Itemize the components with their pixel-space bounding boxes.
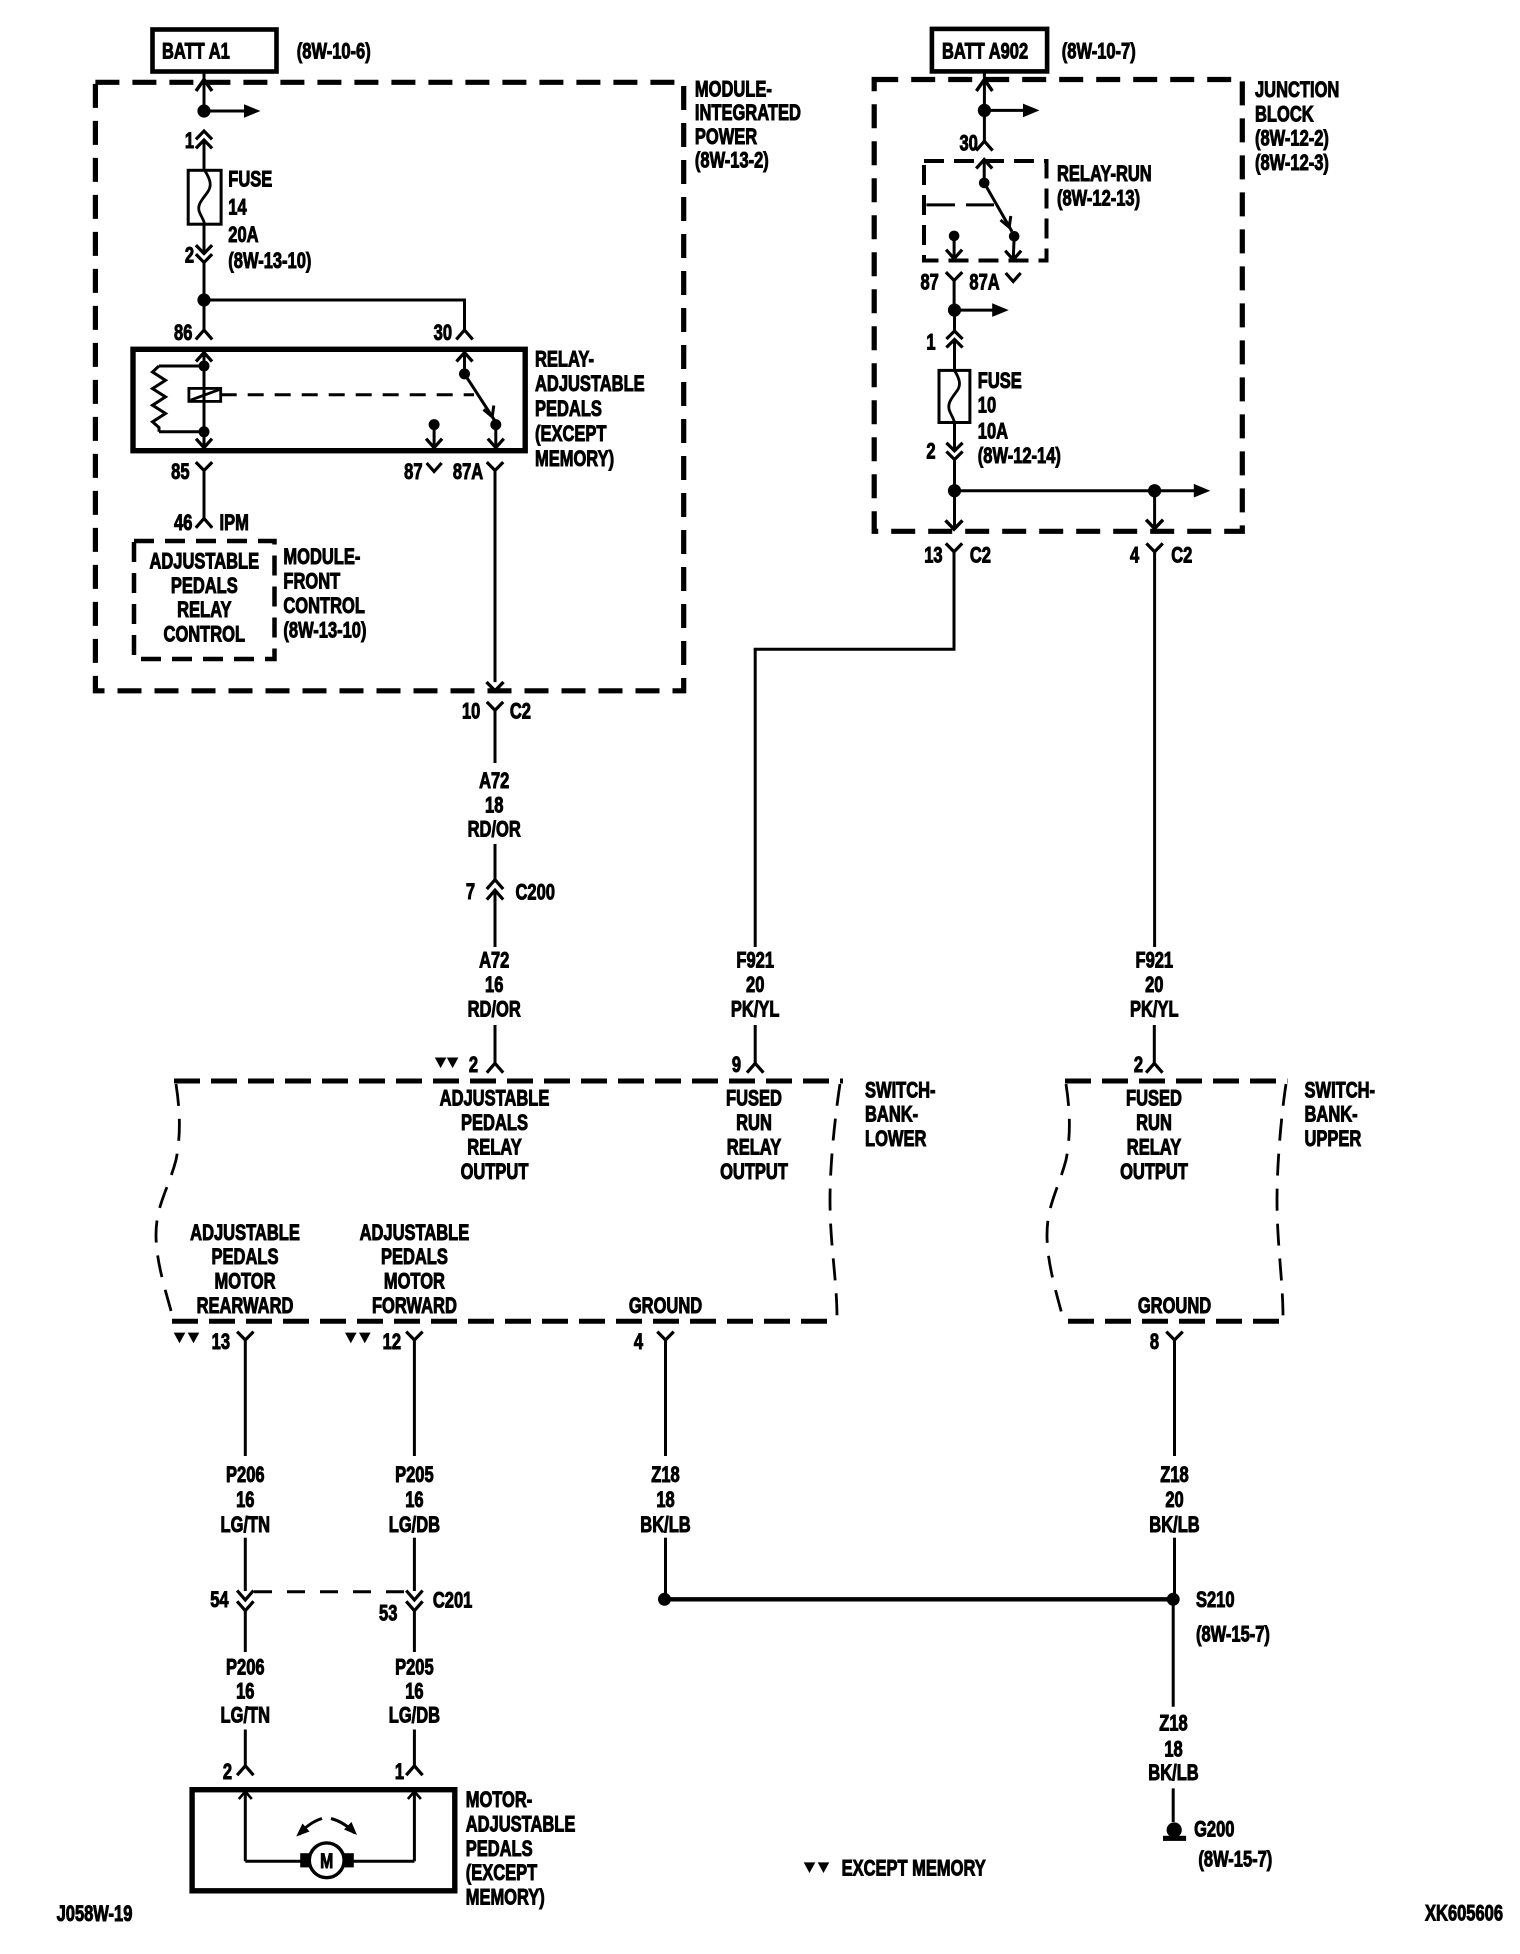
node branch to 4 C2 [1148, 484, 1161, 497]
pin 1 of motor [395, 1760, 423, 1785]
svg-text:30: 30 [959, 131, 978, 156]
svg-text:PEDALS: PEDALS [212, 1245, 279, 1270]
svg-text:C2: C2 [510, 699, 531, 724]
arrow feed right [984, 104, 1039, 118]
svg-text:(8W-12-13): (8W-12-13) [1057, 186, 1140, 211]
svg-text:GROUND: GROUND [1138, 1294, 1211, 1319]
svg-text:FUSE: FUSE [228, 167, 272, 192]
relay-run switch input arrow [976, 160, 992, 183]
wire A72 to switch bank pin 2 [494, 1025, 497, 1063]
svg-text:RELAY: RELAY [467, 1135, 521, 1160]
svg-text:2: 2 [469, 1053, 478, 1078]
label ADJUSTABLE PEDALS RELAY CONTROL [149, 549, 259, 647]
relay coil symbol box [189, 388, 221, 401]
svg-text:ADJUSTABLE: ADJUSTABLE [466, 1812, 576, 1837]
svg-text:MOTOR: MOTOR [384, 1269, 445, 1294]
svg-text:P206: P206 [226, 1463, 265, 1488]
svg-text:F921: F921 [1135, 948, 1173, 973]
svg-text:IPM: IPM [220, 511, 249, 536]
node ground junction left [658, 1593, 671, 1606]
svg-text:BATT A902: BATT A902 [942, 39, 1028, 64]
svg-text:87A: 87A [969, 270, 999, 295]
node feed to fuse 10 [948, 304, 961, 317]
module-integrated power dashed box [95, 82, 683, 691]
pin 86 of relay [174, 321, 212, 346]
wire Z18 to ground G200 [1172, 1788, 1175, 1822]
wire C2 to label A72 [494, 710, 497, 763]
pin 13 switch bank lower [212, 1330, 254, 1355]
svg-text:P206: P206 [226, 1655, 265, 1680]
svg-text:1: 1 [926, 330, 935, 355]
net ADJUSTABLE PEDALS MOTOR REARWARD [190, 1221, 300, 1319]
pin 2 of motor [223, 1760, 254, 1785]
svg-text:FORWARD: FORWARD [372, 1294, 457, 1319]
node split to relay pins 86 and 30 [197, 293, 210, 306]
svg-text:9: 9 [732, 1053, 741, 1078]
svg-text:16: 16 [485, 973, 504, 998]
svg-text:RD/OR: RD/OR [468, 817, 521, 842]
svg-text:(8W-10-6): (8W-10-6) [297, 39, 371, 64]
wire label F921 20 PK/YL upper [1130, 948, 1179, 1022]
value label FUSE 14 20A (8W-13-10) [228, 167, 311, 273]
svg-text:MOTOR-: MOTOR- [466, 1788, 533, 1813]
svg-text:ADJUSTABLE: ADJUSTABLE [360, 1221, 470, 1246]
svg-text:REARWARD: REARWARD [197, 1294, 294, 1319]
motor pin 2 entry arrow [239, 1792, 252, 1862]
svg-text:A72: A72 [479, 948, 509, 973]
wire P206 to motor pin 2 [244, 1730, 247, 1766]
svg-text:16: 16 [405, 1488, 424, 1513]
net FUSED RUN RELAY OUTPUT lower [720, 1086, 788, 1185]
svg-text:EXCEPT MEMORY: EXCEPT MEMORY [842, 1856, 986, 1881]
wire pin 8 down [1173, 1340, 1176, 1456]
junction block dashed box [874, 80, 1242, 532]
label SWITCH-BANK-LOWER [865, 1078, 936, 1152]
svg-text:OUTPUT: OUTPUT [461, 1160, 529, 1185]
wire to motor right brush [353, 1860, 414, 1863]
net GROUND upper [1138, 1294, 1211, 1319]
pin 30 of relay-run [959, 131, 992, 156]
label RELAY-RUN (8W-12-13) [1057, 162, 1152, 211]
wire pin 12 down [413, 1340, 416, 1456]
svg-text:FUSED: FUSED [1126, 1086, 1182, 1111]
wire P205 to connector 53 [413, 1538, 416, 1591]
wire fuse to pin 2 [203, 224, 206, 253]
relay contact 87A node [490, 419, 501, 430]
svg-text:ADJUSTABLE: ADJUSTABLE [440, 1086, 550, 1111]
wire node to exit 4 C2 [1146, 491, 1163, 529]
arrow fused run feed right [955, 484, 1211, 498]
svg-text:PK/YL: PK/YL [1130, 997, 1179, 1022]
adjustable pedals relay control dashed box [134, 541, 275, 659]
svg-text:MODULE-: MODULE- [283, 545, 360, 570]
svg-text:P205: P205 [395, 1655, 434, 1680]
svg-text:RELAY: RELAY [727, 1135, 781, 1160]
svg-text:Z18: Z18 [1160, 1463, 1189, 1488]
svg-text:BANK-: BANK- [1305, 1102, 1358, 1127]
svg-text:A72: A72 [479, 769, 509, 794]
net GROUND lower [629, 1294, 702, 1319]
svg-text:FUSED: FUSED [726, 1086, 782, 1111]
relay coil input arrow [196, 353, 212, 367]
wire relay 87A to connector C2 [494, 471, 497, 683]
wire splice bus [665, 1597, 1174, 1601]
connector pin 53 C201 [379, 1588, 472, 1626]
svg-text:2: 2 [926, 439, 935, 464]
svg-text:PEDALS: PEDALS [171, 574, 238, 599]
wire pin 2 to node [953, 460, 956, 486]
wire pin1 to fuse [203, 140, 206, 170]
svg-text:85: 85 [171, 460, 190, 485]
connector pin 10 C2 [462, 699, 531, 724]
svg-text:13: 13 [924, 543, 943, 568]
fuse F14 20A symbol [188, 170, 221, 224]
pin 87 of relay-run [920, 270, 962, 295]
svg-text:18: 18 [485, 793, 504, 818]
svg-text:XK605606: XK605606 [1425, 1901, 1503, 1926]
wire from BATT A1 into module box with up arrow [196, 71, 212, 105]
svg-text:10: 10 [978, 393, 997, 418]
wire fuse to pin 2 [953, 423, 956, 451]
relay coil bottom node [199, 426, 210, 437]
svg-text:PEDALS: PEDALS [461, 1111, 528, 1136]
svg-text:PEDALS: PEDALS [466, 1837, 533, 1862]
svg-text:16: 16 [236, 1679, 255, 1704]
svg-text:RELAY-: RELAY- [535, 347, 594, 372]
relay coil exit arrow [196, 432, 212, 448]
wire F921 to pin 9 [754, 1025, 757, 1063]
svg-text:RELAY-RUN: RELAY-RUN [1057, 162, 1152, 187]
label RELAY-ADJUSTABLE PEDALS (EXCEPT MEMORY) [535, 347, 645, 471]
wire label Z18 18 BK/LB left [640, 1463, 690, 1538]
svg-text:P205: P205 [395, 1463, 434, 1488]
ground G200 symbol [1163, 1817, 1235, 1842]
wire C200 down [494, 890, 497, 947]
sheet number J058W-19 [57, 1902, 133, 1927]
pin 2 switch bank upper [1134, 1053, 1163, 1078]
svg-text:MEMORY): MEMORY) [535, 447, 614, 472]
wire pin 2 down to node [203, 263, 206, 295]
svg-text:BANK-: BANK- [865, 1102, 918, 1127]
svg-text:RD/OR: RD/OR [468, 997, 521, 1022]
svg-text:1: 1 [395, 1760, 404, 1785]
svg-text:(EXCEPT: (EXCEPT [535, 422, 607, 447]
legend except memory [804, 1856, 986, 1881]
pin 30 of relay [434, 321, 473, 346]
svg-text:CONTROL: CONTROL [164, 622, 246, 647]
wire A72 to connector C200 [494, 844, 497, 880]
svg-text:8: 8 [1150, 1330, 1159, 1355]
svg-text:13: 13 [212, 1330, 231, 1355]
svg-text:20: 20 [1165, 1488, 1184, 1513]
wire pin 1 to fuse 10 [953, 340, 956, 371]
svg-text:BK/LB: BK/LB [1148, 1761, 1198, 1786]
connector pin 54 C201 [210, 1588, 253, 1613]
relay-run 87A exit arrow [1005, 236, 1021, 259]
svg-text:2: 2 [185, 243, 194, 268]
node junction below BATT A1 [197, 104, 210, 117]
wire 54 down [244, 1611, 247, 1652]
svg-text:UPPER: UPPER [1305, 1127, 1362, 1152]
wire label F921 20 PK/YL lower [731, 948, 780, 1022]
relay coil wire through [203, 366, 206, 432]
svg-text:C200: C200 [516, 880, 556, 905]
motor M1 adjustable pedals box [192, 1790, 455, 1891]
svg-text:53: 53 [379, 1601, 398, 1626]
wire node to exit 13 C2 [946, 491, 963, 530]
motor armature M [300, 1843, 354, 1878]
relay-run switch pivot [979, 178, 990, 189]
arrow feed right from 87 [955, 303, 1009, 317]
fuse F10 10A symbol [939, 370, 970, 422]
wire label Z18 20 BK/LB [1149, 1463, 1199, 1538]
relay contact 87 node [429, 419, 440, 430]
svg-text:LOWER: LOWER [865, 1127, 926, 1152]
pin 2 of fuse 10 [926, 439, 962, 464]
svg-text:J058W-19: J058W-19 [57, 1902, 133, 1927]
reference (8W-10-6) [297, 39, 371, 64]
switch-bank-upper dashed box [1047, 1081, 1287, 1321]
wire node to fuse pin 1 [953, 316, 956, 331]
relay 87A exit arrow [488, 425, 504, 448]
label MODULE-FRONT CONTROL (8W-13-10) [283, 545, 366, 643]
svg-text:OUTPUT: OUTPUT [1120, 1160, 1188, 1185]
svg-text:4: 4 [634, 1330, 643, 1355]
svg-text:(8W-12-2): (8W-12-2) [1255, 126, 1329, 151]
svg-text:12: 12 [383, 1330, 402, 1355]
relay switch input wire [457, 353, 473, 374]
node fused run output [948, 484, 961, 497]
pin 12 switch bank lower [383, 1330, 423, 1355]
pin 87A of relay-run [969, 270, 1020, 295]
svg-text:87A: 87A [453, 460, 483, 485]
connector C201 dashed link [254, 1590, 406, 1593]
relay-run 87 exit arrow [946, 236, 962, 259]
svg-text:FRONT: FRONT [283, 569, 340, 594]
svg-text:2: 2 [1134, 1053, 1143, 1078]
svg-text:FUSE: FUSE [978, 369, 1022, 394]
relay coil top node [199, 361, 210, 372]
wire node to relay pin 30 [204, 299, 465, 331]
relay-run contact 87 node [949, 231, 960, 242]
svg-text:7: 7 [466, 880, 475, 905]
svg-text:(8W-13-2): (8W-13-2) [695, 148, 769, 173]
relay actuation dashed link [221, 393, 474, 396]
svg-text:16: 16 [405, 1679, 424, 1704]
pin 2 of fuse 14 [185, 243, 212, 268]
relay switch blade with arrow [465, 374, 496, 421]
svg-text:M: M [320, 1849, 333, 1873]
svg-text:ADJUSTABLE: ADJUSTABLE [149, 549, 259, 574]
except-memory marker at pin 2 [435, 1058, 459, 1069]
svg-text:(8W-15-7): (8W-15-7) [1196, 1622, 1270, 1647]
svg-text:LG/TN: LG/TN [221, 1703, 270, 1728]
wire 87 down to node [953, 281, 956, 305]
svg-text:20: 20 [746, 973, 765, 998]
svg-text:RELAY: RELAY [177, 598, 231, 623]
wire label P206 16 LG/TN upper [221, 1463, 270, 1538]
svg-text:10: 10 [462, 699, 481, 724]
pin 87A of relay [453, 460, 503, 485]
svg-text:INTEGRATED: INTEGRATED [695, 101, 801, 126]
pin 1 of fuse 14 [185, 129, 212, 154]
svg-text:LG/TN: LG/TN [221, 1513, 270, 1538]
svg-text:PK/YL: PK/YL [731, 997, 780, 1022]
wire F921 to pin 2 upper [1153, 1025, 1156, 1063]
svg-text:(8W-13-10): (8W-13-10) [228, 249, 311, 274]
svg-text:OUTPUT: OUTPUT [720, 1160, 788, 1185]
battery feed box BATT A1 [153, 30, 277, 72]
svg-text:GROUND: GROUND [629, 1294, 702, 1319]
motor rotation arrows [296, 1819, 357, 1837]
svg-text:MOTOR: MOTOR [214, 1269, 275, 1294]
net FUSED RUN RELAY OUTPUT upper [1120, 1086, 1188, 1185]
svg-text:MODULE-: MODULE- [695, 77, 772, 102]
svg-text:30: 30 [434, 321, 453, 346]
switch-bank-lower dashed box [156, 1081, 843, 1321]
svg-text:1: 1 [185, 129, 194, 154]
wire label A72 18 RD/OR [468, 769, 521, 842]
pin 2 switch bank lower [469, 1053, 503, 1078]
svg-text:RELAY: RELAY [1127, 1135, 1181, 1160]
label MOTOR-ADJUSTABLE PEDALS (EXCEPT MEMORY) [466, 1788, 576, 1910]
svg-text:RUN: RUN [736, 1111, 772, 1136]
wire node to relay pin 86 [203, 306, 206, 330]
svg-text:18: 18 [1164, 1737, 1183, 1762]
svg-text:MEMORY): MEMORY) [466, 1885, 545, 1910]
battery feed box BATT A902 [932, 29, 1047, 72]
svg-text:G200: G200 [1194, 1817, 1235, 1842]
wire 53 down [413, 1611, 416, 1652]
svg-text:BK/LB: BK/LB [640, 1513, 690, 1538]
svg-text:(EXCEPT: (EXCEPT [466, 1861, 538, 1886]
svg-text:(8W-13-10): (8W-13-10) [283, 618, 366, 643]
connector pin 7 C200 [466, 880, 555, 905]
wire label P205 16 LG/DB upper [389, 1463, 440, 1538]
svg-text:RUN: RUN [1136, 1111, 1172, 1136]
pin 4 switch bank lower [634, 1330, 674, 1355]
svg-text:2: 2 [223, 1760, 232, 1785]
wire label P205 16 LG/DB lower [389, 1655, 440, 1728]
except-memory marker at pin 12 [345, 1333, 371, 1344]
wire label A72 16 RD/OR [468, 948, 521, 1022]
svg-text:BLOCK: BLOCK [1255, 102, 1314, 127]
connector pin 4 C2 [1130, 543, 1192, 568]
svg-text:87: 87 [404, 460, 422, 485]
wire pin 4 ground down [664, 1340, 667, 1456]
connector pin 13 C2 [924, 543, 991, 568]
svg-text:PEDALS: PEDALS [535, 397, 602, 422]
value label FUSE 10 10A (8W-12-14) [978, 369, 1061, 469]
svg-text:54: 54 [210, 1588, 229, 1613]
drawing number XK605606 [1425, 1901, 1503, 1926]
wire S210 down [1172, 1599, 1175, 1707]
net ADJUSTABLE PEDALS MOTOR FORWARD [360, 1221, 470, 1319]
svg-text:(8W-12-3): (8W-12-3) [1255, 151, 1329, 176]
svg-text:46: 46 [174, 511, 193, 536]
wire 4 C2 down to upper bank [1153, 552, 1156, 947]
arrow feed to other circuits [204, 104, 261, 118]
reference (8W-10-7) [1062, 39, 1136, 64]
pin 9 switch bank lower [732, 1053, 764, 1078]
reference (8W-15-7) S210 [1196, 1622, 1270, 1647]
relay coil resistance element [153, 366, 205, 432]
wire 13 C2 jog to lower bank [754, 552, 956, 947]
pin 87 of relay [404, 460, 441, 485]
svg-text:(8W-10-7): (8W-10-7) [1062, 39, 1136, 64]
svg-text:87: 87 [920, 270, 938, 295]
svg-text:20A: 20A [228, 223, 258, 248]
relay-run 87A contact line [926, 203, 994, 206]
pin 46 IPM [174, 511, 249, 536]
svg-text:10A: 10A [978, 419, 1008, 444]
svg-text:ADJUSTABLE: ADJUSTABLE [535, 372, 645, 397]
svg-text:BATT A1: BATT A1 [162, 39, 230, 64]
svg-text:JUNCTION: JUNCTION [1255, 78, 1339, 103]
svg-text:ADJUSTABLE: ADJUSTABLE [190, 1221, 300, 1246]
svg-text:14: 14 [228, 195, 247, 220]
wire to motor left brush [245, 1860, 301, 1863]
exit arrow at module box edge [487, 682, 504, 691]
pin 8 switch bank upper [1150, 1330, 1183, 1355]
wire pin 13 down [244, 1340, 247, 1456]
svg-text:16: 16 [236, 1488, 255, 1513]
svg-text:SWITCH-: SWITCH- [865, 1078, 936, 1103]
label JUNCTION BLOCK (8W-12-2) (8W-12-3) [1255, 78, 1339, 176]
svg-text:(8W-12-14): (8W-12-14) [978, 444, 1061, 469]
svg-text:PEDALS: PEDALS [381, 1245, 448, 1270]
svg-text:18: 18 [656, 1488, 675, 1513]
node below BATT A902 [978, 104, 991, 117]
wire Z18 to splice [664, 1538, 667, 1594]
pin 1 of fuse 10 [926, 330, 962, 355]
label MODULE-INTEGRATED POWER (8W-13-2) [695, 77, 801, 173]
wire P206 to connector 54 [244, 1538, 247, 1591]
svg-text:C201: C201 [433, 1588, 473, 1613]
svg-text:Z18: Z18 [1159, 1711, 1188, 1736]
wire relay 85 to IPM 46 [203, 471, 206, 519]
svg-text:C2: C2 [1171, 543, 1192, 568]
relay-run switch blade with arrow [984, 183, 1012, 232]
wire Z18 to splice S210 [1173, 1538, 1176, 1594]
svg-text:POWER: POWER [695, 125, 757, 150]
relay-run contact node [1009, 231, 1020, 242]
motor pin 1 entry arrow [408, 1792, 421, 1862]
label SWITCH-BANK-UPPER [1305, 1078, 1376, 1152]
svg-text:86: 86 [174, 321, 193, 346]
wire BATT A902 into junction block [976, 71, 992, 105]
relay 87 exit arrow [426, 425, 442, 448]
wire label P206 16 LG/TN lower [221, 1655, 270, 1728]
svg-text:20: 20 [1145, 973, 1164, 998]
svg-text:S210: S210 [1196, 1588, 1235, 1613]
svg-text:(8W-15-7): (8W-15-7) [1198, 1847, 1272, 1872]
svg-text:LG/DB: LG/DB [389, 1513, 440, 1538]
svg-text:C2: C2 [970, 543, 991, 568]
svg-text:LG/DB: LG/DB [389, 1703, 440, 1728]
wire node to relay-run pin 30 [983, 116, 986, 141]
wire label Z18 18 BK/LB right [1148, 1711, 1198, 1785]
reference (8W-15-7) G200 [1198, 1847, 1272, 1872]
svg-text:BK/LB: BK/LB [1149, 1513, 1199, 1538]
svg-text:SWITCH-: SWITCH- [1305, 1078, 1376, 1103]
net ADJUSTABLE PEDALS RELAY OUTPUT [440, 1086, 550, 1185]
pin 85 of relay [171, 460, 212, 485]
svg-text:Z18: Z18 [651, 1463, 680, 1488]
svg-text:4: 4 [1130, 543, 1139, 568]
splice S210 [1167, 1588, 1235, 1613]
svg-text:F921: F921 [736, 948, 774, 973]
